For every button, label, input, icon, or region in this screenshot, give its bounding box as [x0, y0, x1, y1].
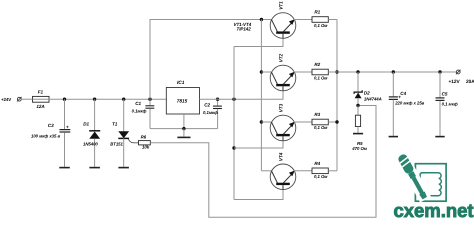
- svg-text:0,1мкф: 0,1мкф: [203, 110, 218, 115]
- svg-text:VT3: VT3: [279, 103, 284, 112]
- svg-text:VT2: VT2: [279, 53, 284, 62]
- fuse F1 12A: [33, 90, 50, 109]
- ground bar under C3: [59, 167, 70, 169]
- svg-text:R4: R4: [314, 161, 320, 166]
- junction C1/top feed on rail: [148, 98, 151, 101]
- junction IC1 gnd on link: [182, 127, 185, 130]
- svg-text:1N5400: 1N5400: [83, 142, 98, 147]
- junction D1 on rail: [93, 98, 96, 101]
- wire VT3 collector stub: [261, 121, 272, 123]
- ground bar under C4: [389, 136, 398, 138]
- svg-text:TIP142: TIP142: [237, 27, 252, 32]
- wire VT3 emitter to R3: [294, 121, 312, 123]
- thyristor T1 BT151: [110, 99, 138, 167]
- logo cxem.net: [394, 152, 474, 222]
- svg-text:+12V: +12V: [449, 79, 461, 85]
- wire base bus vertical: [233, 47, 235, 200]
- svg-text:+24V: +24V: [1, 97, 11, 102]
- svg-text:T1: T1: [112, 121, 118, 126]
- node +12V output terminal: [449, 70, 474, 85]
- junction C2 on output line: [216, 98, 219, 101]
- wire R3 to output bus: [328, 121, 337, 123]
- svg-text:BT151: BT151: [110, 142, 123, 147]
- junction C3 on rail: [63, 98, 66, 101]
- junction base bus on output line: [232, 98, 235, 101]
- junction D2/R5/gate node: [356, 104, 359, 107]
- resistor R6 10k (thyristor gate): [139, 134, 151, 149]
- ground bar under T1: [118, 167, 128, 169]
- svg-text:C2: C2: [204, 102, 210, 107]
- resistor R1 0.1 Ом: [312, 9, 328, 28]
- wire +24V top feed to collectors: [150, 20, 272, 100]
- junction collector bus top: [260, 18, 263, 21]
- ground bar under IC1: [177, 136, 190, 138]
- svg-text:0,1 Ом: 0,1 Ом: [314, 125, 328, 130]
- svg-text:0,1 Ом: 0,1 Ом: [314, 174, 328, 179]
- wire VT1 emitter to R1: [294, 19, 312, 21]
- svg-text:R6: R6: [141, 134, 147, 139]
- wire +12V output line: [328, 71, 456, 73]
- resistor R3 0.1 Ом: [312, 112, 328, 130]
- svg-text:C1: C1: [135, 101, 141, 106]
- wire VT4 base link: [234, 190, 283, 200]
- junction C4 on output line: [392, 70, 395, 73]
- label VT1-VT4 TIP142: [234, 22, 252, 32]
- resistor R4 0.1 Ом: [312, 161, 328, 179]
- transistor VT2: [270, 53, 296, 90]
- diode D1 1N5400: [83, 99, 100, 167]
- wire R4 to output bus: [328, 170, 337, 172]
- capacitor C5 0,1 мкф: [436, 72, 458, 136]
- junction R3 on output bus: [335, 120, 338, 123]
- svg-text:D1: D1: [83, 121, 89, 126]
- svg-text:10k: 10k: [142, 144, 150, 149]
- ground bar under D1: [89, 167, 100, 169]
- svg-text:IC1: IC1: [177, 80, 185, 86]
- svg-text:R2: R2: [314, 62, 320, 67]
- resistor R2 0.1 Ом: [312, 62, 328, 81]
- svg-text:VT1: VT1: [279, 1, 284, 10]
- junction T1 on rail: [122, 98, 125, 101]
- junction VT3 base on bus: [232, 146, 235, 149]
- svg-text:C3: C3: [48, 123, 54, 128]
- capacitor C2 0,1мкф: [203, 99, 222, 128]
- svg-text:0.1мкф: 0.1мкф: [132, 109, 147, 114]
- junction D2 on output line: [356, 70, 359, 73]
- ground bar under C5: [435, 136, 444, 138]
- svg-text:R1: R1: [314, 9, 320, 14]
- svg-text:12A: 12A: [36, 104, 44, 109]
- svg-text:0,1 Ом: 0,1 Ом: [314, 23, 328, 28]
- wire collector bus vertical: [260, 20, 262, 171]
- transistor VT4: [270, 152, 296, 189]
- svg-text:0,1 мкф: 0,1 мкф: [442, 101, 458, 106]
- junction VT2 collector: [260, 70, 263, 73]
- wire terminal to fuse: [21, 98, 32, 100]
- svg-text:C4: C4: [400, 91, 406, 96]
- svg-text:470 Ом: 470 Ом: [351, 146, 368, 151]
- svg-text:7815: 7815: [177, 98, 188, 104]
- capacitor C4 220мкф electrolytic: [389, 72, 425, 136]
- wire VT3 base link: [234, 141, 283, 148]
- transistor VT1: [270, 1, 296, 38]
- svg-text:20A: 20A: [466, 79, 474, 85]
- svg-text:C5: C5: [442, 91, 448, 96]
- svg-text:R3: R3: [314, 112, 320, 117]
- junction VT3 collector: [260, 120, 263, 123]
- junction output bus / output line: [335, 70, 338, 73]
- svg-text:VT4: VT4: [279, 152, 284, 161]
- zener diode D2 1N4744A: [354, 72, 382, 106]
- svg-text:F1: F1: [38, 90, 44, 95]
- node +24V input terminal: [1, 97, 22, 102]
- wire main +24V rail: [49, 98, 166, 100]
- wire VT4 emitter to R4: [294, 170, 312, 172]
- wire R1 to output bus: [328, 19, 337, 21]
- wire VT2 emitter to R2: [294, 71, 312, 73]
- svg-text:100 мкф х35 в: 100 мкф х35 в: [31, 134, 60, 139]
- regulator IC1 7815: [166, 80, 199, 114]
- wire stub to main ground: [183, 129, 185, 137]
- wire ground link C1-IC1-C2: [150, 128, 218, 130]
- wire gate line R6 to D2/R5 node: [150, 106, 376, 218]
- wire output bus vertical: [336, 20, 338, 171]
- capacitor C1 0.1мкф: [132, 99, 155, 128]
- wire VT2 collector stub: [261, 71, 272, 73]
- svg-text:0,1 Ом: 0,1 Ом: [314, 76, 328, 81]
- svg-text:+: +: [66, 125, 69, 130]
- svg-text:D2: D2: [364, 90, 370, 95]
- svg-text:cxem.net: cxem.net: [394, 201, 474, 220]
- svg-text:1N4744A: 1N4744A: [364, 97, 382, 102]
- junction C5 on output line: [438, 70, 441, 73]
- wire IC1 output to VT2 base: [200, 91, 284, 99]
- capacitor C3 100мкф electrolytic: [31, 99, 70, 167]
- wire VT1 base link: [234, 38, 283, 46]
- svg-text:220 мкф х 25в: 220 мкф х 25в: [394, 100, 424, 105]
- transistor VT3: [270, 103, 296, 140]
- wire VT4 collector stub: [261, 170, 272, 172]
- resistor R5 470 Ом: [351, 106, 368, 151]
- ground bar under R5: [353, 133, 363, 135]
- wire IC1 ground pin: [183, 114, 185, 129]
